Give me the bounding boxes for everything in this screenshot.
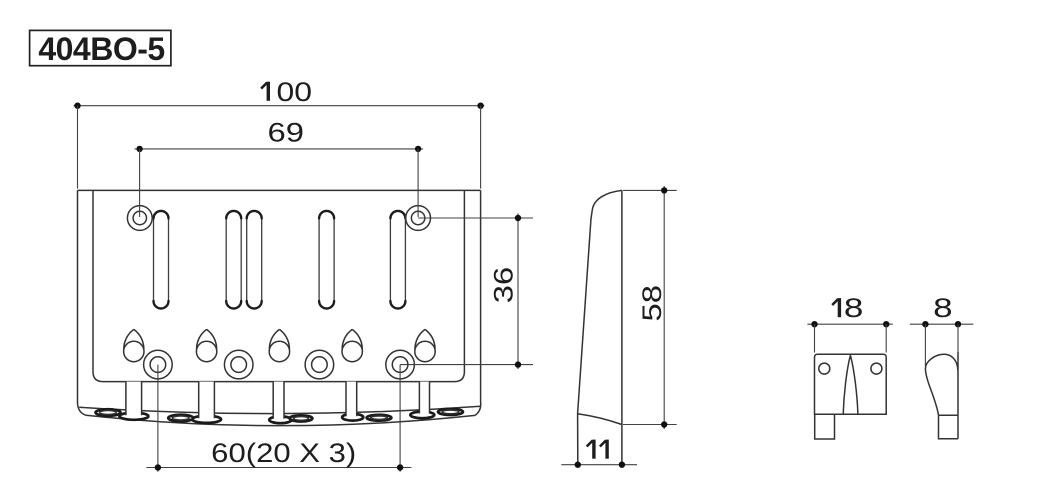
saddle front screw hole right: [871, 363, 882, 374]
dim 69 line: [135, 146, 424, 217]
wood screw hole 1 (double circle): [144, 350, 173, 379]
svg-text:60(20 X 3): 60(20 X 3): [211, 438, 356, 468]
saddle slot 3: [247, 211, 262, 309]
svg-text:58: 58: [637, 285, 667, 322]
inner raised plate outline: [93, 190, 464, 381]
tail foot ellipse 3: [269, 416, 291, 423]
string teardrop hole 2: [196, 329, 216, 361]
tab 2: [199, 382, 215, 419]
string ball hole 1: [96, 409, 121, 416]
dim 8 line: [910, 321, 974, 366]
tail foot ellipse 1: [119, 413, 148, 420]
tail upper fold curve: [79, 406, 480, 413]
string ball hole 3: [290, 415, 313, 421]
svg-text:8: 8: [933, 293, 953, 323]
dim label 100: [267, 82, 270, 101]
string teardrop hole 1: [124, 329, 144, 361]
title box 404BO-5: [30, 30, 171, 67]
svg-text:36: 36: [489, 267, 519, 304]
saddle front body: [815, 354, 887, 414]
saddle front screw hole left: [819, 363, 830, 374]
svg-text:69: 69: [268, 118, 305, 148]
dim 18 line: [807, 321, 892, 353]
saddle side tab: [939, 415, 959, 439]
svg-text:8: 8: [844, 293, 864, 323]
wood screw hole 4 (double circle): [386, 350, 415, 379]
dim 100 line: [74, 103, 485, 189]
tab 1: [126, 382, 142, 416]
mounting hole right (double circle): [406, 206, 431, 231]
saddle slot 1: [154, 211, 169, 309]
string teardrop hole 3: [269, 329, 289, 361]
plate outer silhouette with curved tail: [78, 190, 481, 425]
dim 60(20 X 3) line: [146, 365, 411, 472]
saddle slot 4: [319, 211, 334, 309]
dim 58 line: [623, 186, 677, 429]
saddle slot 5: [390, 211, 405, 309]
tab 5: [419, 382, 429, 414]
side profile outline: [578, 190, 622, 464]
wood screw hole 3 (double circle): [305, 350, 334, 379]
saddle front string notch: [843, 355, 858, 414]
tab 3: [273, 382, 284, 419]
saddle slot 2: [226, 211, 241, 309]
tab 4: [346, 382, 357, 417]
mounting hole left (double circle): [127, 206, 152, 231]
dim label 11: [592, 440, 595, 459]
string teardrop hole 4: [342, 329, 362, 361]
tail bottom curve: [86, 415, 475, 425]
side tail curve: [578, 414, 622, 425]
string teardrop hole 5: [415, 329, 435, 361]
string ball hole 2: [168, 415, 193, 422]
tail foot ellipse 5: [410, 412, 434, 419]
tail foot ellipse 2: [192, 416, 221, 423]
string ball hole 4: [367, 415, 392, 421]
svg-text:00: 00: [277, 77, 313, 107]
wood screw hole 2 (double circle): [224, 350, 253, 379]
dim 36 line: [400, 214, 533, 370]
saddle side body: [925, 352, 958, 439]
svg-text:404BO-5: 404BO-5: [38, 31, 164, 67]
tail foot ellipse 4: [342, 414, 363, 421]
dim label 18: [838, 298, 841, 317]
saddle front tab: [815, 414, 835, 439]
dim 11 line: [561, 462, 637, 468]
string ball hole 5: [438, 409, 463, 415]
